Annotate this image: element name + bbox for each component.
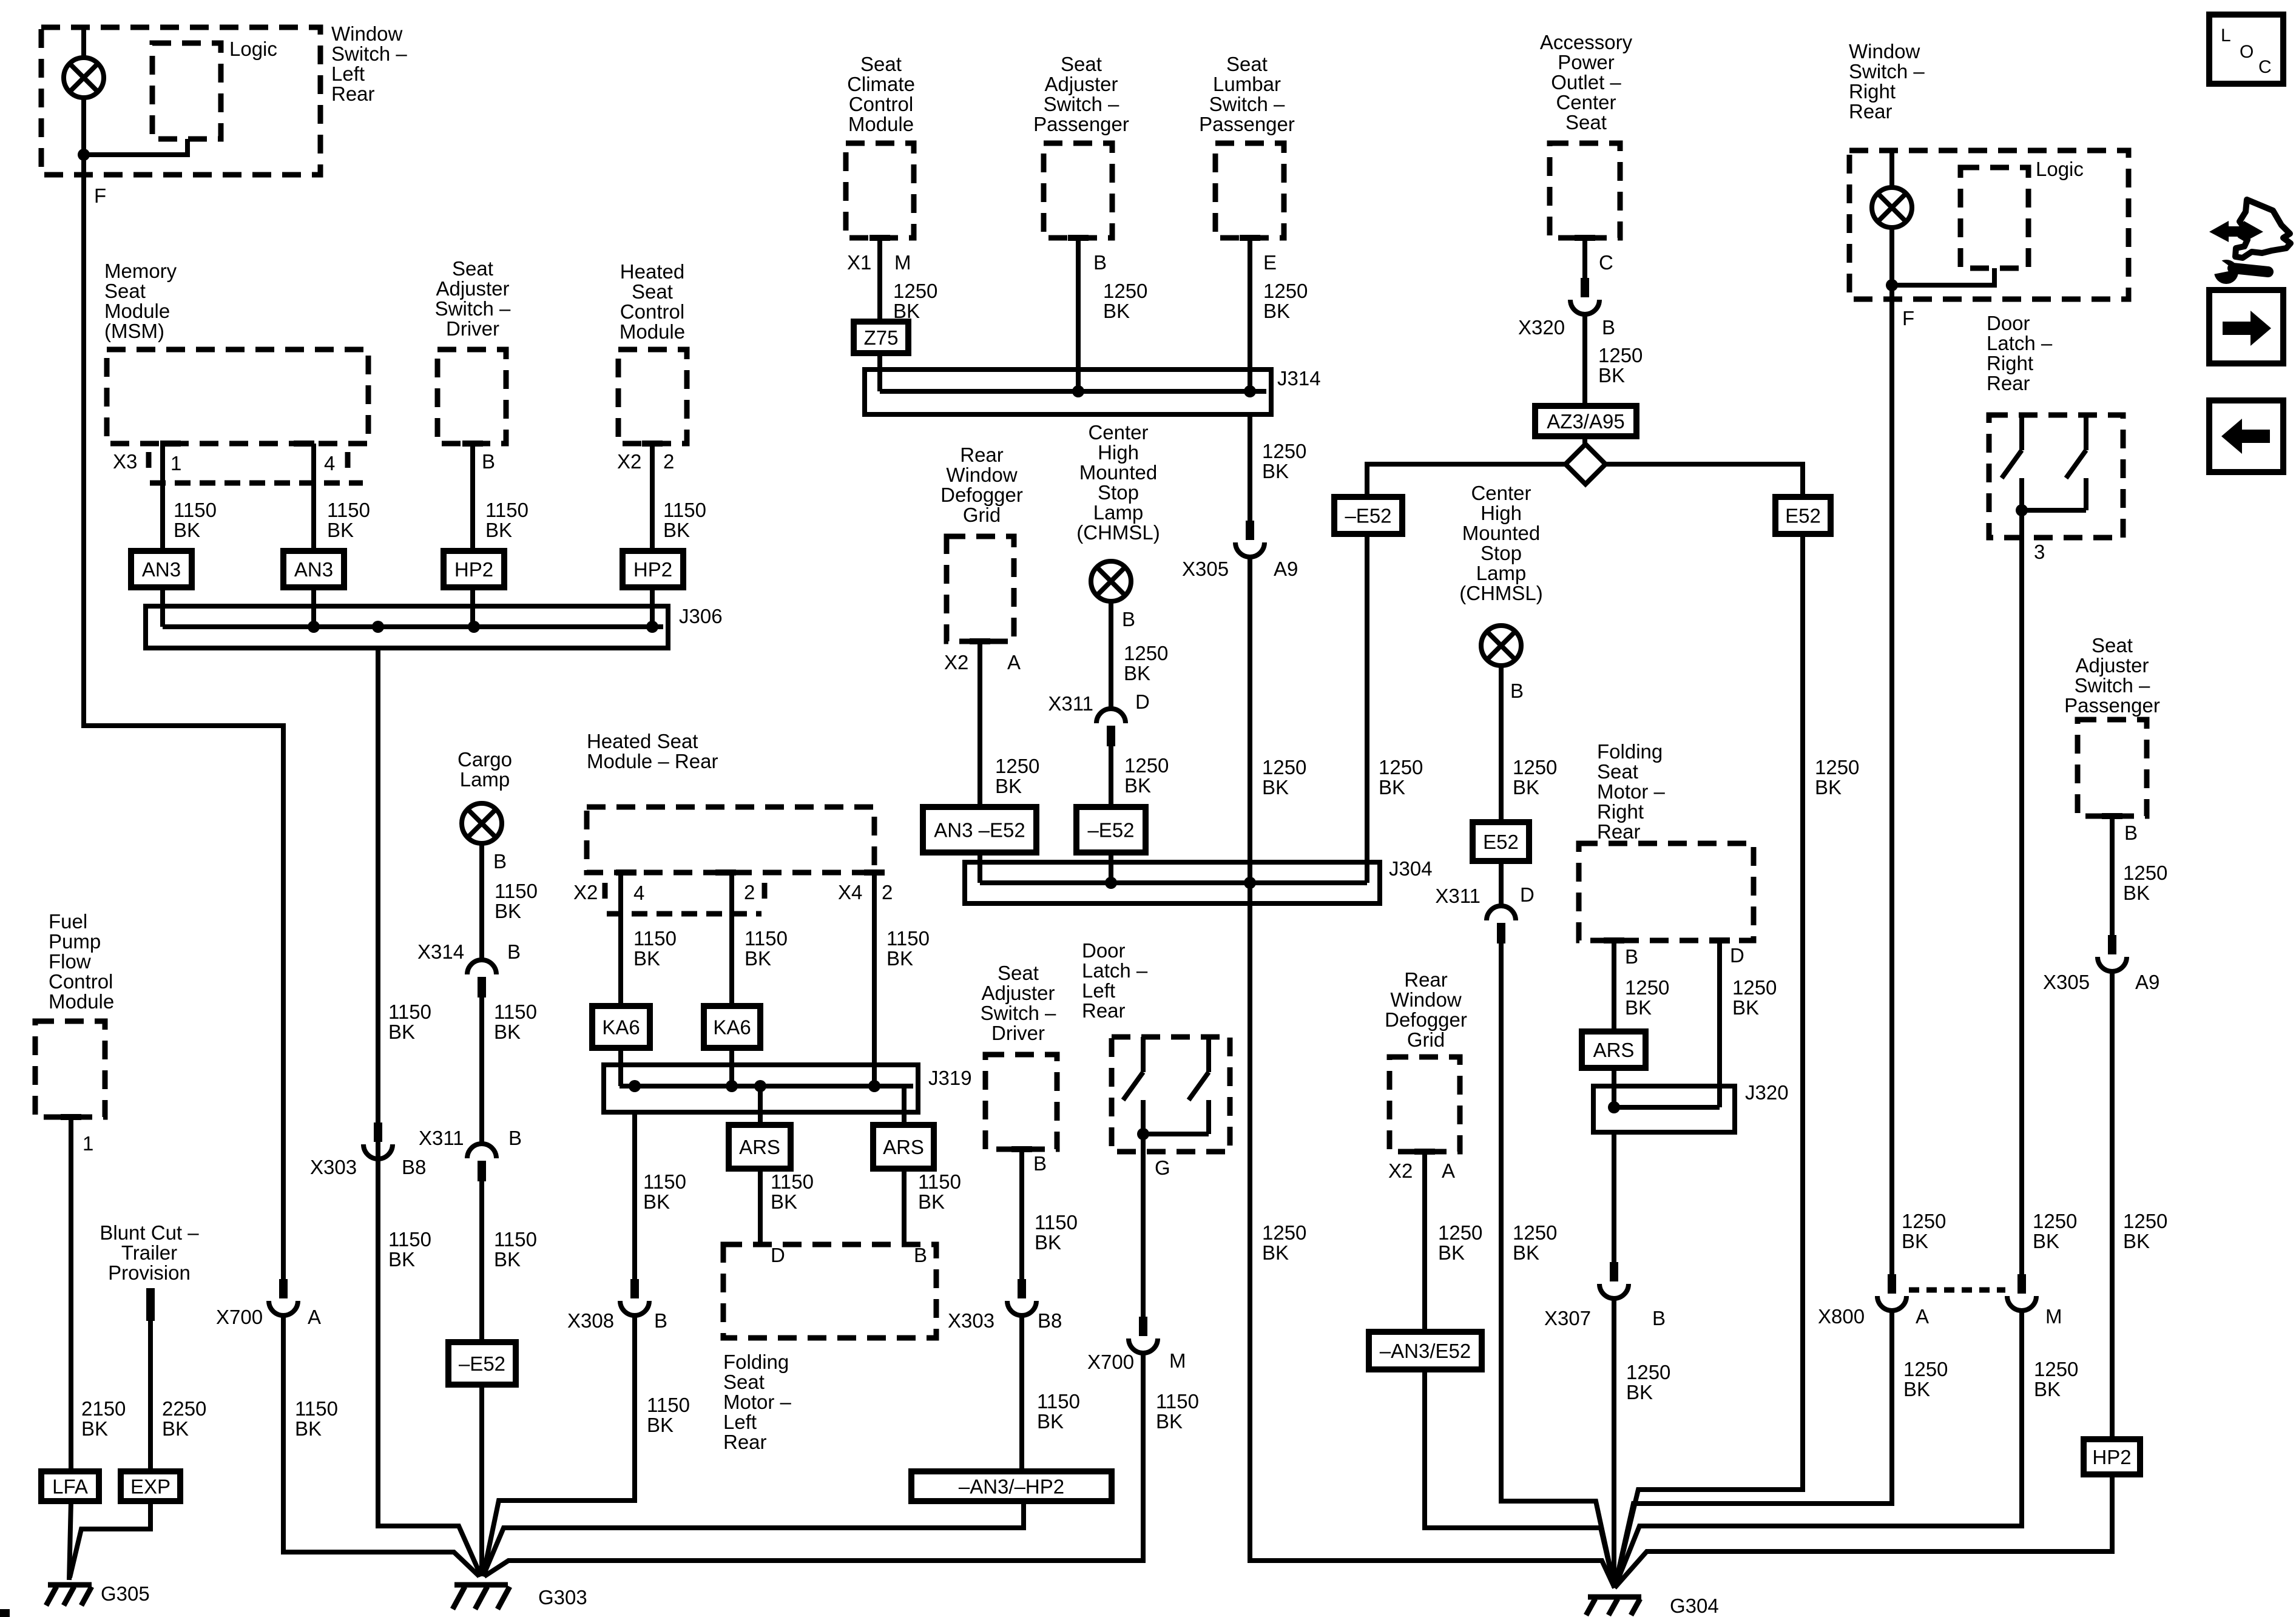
wire: seat climate M to Z75, 1250 BK [877, 238, 882, 322]
wire: LFA down to ground G305 [69, 1501, 71, 1580]
wire: J306 ground leg 1150 BK down to G303 [378, 648, 481, 1576]
component box: Accessory Power Outlet (dashed) [1550, 143, 1620, 238]
wire: E52 down then left to ground G304, 1250 BK [1615, 534, 1803, 1588]
wire: -AN3/-HP2 down/left to ground G303 [483, 1501, 1024, 1576]
pin stub, MSM pin 4 [294, 441, 314, 447]
wire: Z75 into J314 [877, 353, 882, 391]
connector X314 pin B (inline) [467, 960, 496, 998]
inline code box ARS (right) [873, 1125, 934, 1169]
CHMSL lamp (left) [1091, 561, 1131, 601]
wire: MSM pin 4 to AN3, 1150 BK [311, 444, 316, 551]
svg-text:EXP: EXP [130, 1476, 171, 1498]
pin stub B (adjuster passenger right) [2102, 813, 2122, 819]
svg-text:ARS: ARS [883, 1136, 924, 1158]
junction dot on J319 (KA6 right) [726, 1080, 738, 1092]
svg-text:X311: X311 [419, 1127, 464, 1149]
switch contacts inside door latch left rear [1123, 1037, 1209, 1134]
component box: Heated Seat Module - Rear (dashed) [587, 807, 874, 873]
connector X800 pin M (inline, door latch right) [2007, 1274, 2036, 1311]
wire: -E52 down to ground G303 [479, 1385, 484, 1576]
pin stub X2-2 (heated seat control) [642, 441, 663, 447]
wire: X307 straight down to ground G304, 1250 BK [1612, 1297, 1616, 1588]
component box: Folding Seat Motor - Right Rear (dashed) [1579, 843, 1754, 940]
svg-text:AZ3/A95: AZ3/A95 [1547, 410, 1624, 433]
junction dot on J319 (X4) [868, 1080, 880, 1092]
svg-text:1: 1 [171, 452, 181, 474]
svg-text:G: G [1155, 1156, 1170, 1179]
wire: door latch right pin 3 down to X800 M [2019, 510, 2024, 1274]
svg-text:X3: X3 [113, 450, 137, 473]
svg-text:X311: X311 [1435, 885, 1481, 907]
svg-text:4: 4 [633, 882, 644, 904]
wire: KA6 left into J319 [618, 1048, 623, 1086]
component box: Rear Window Defogger Grid (dashed, left) [947, 536, 1014, 641]
wire: X4 pin 2 to J319, 1150 BK [872, 873, 877, 1086]
svg-text:B: B [493, 850, 507, 873]
component box: Seat Adjuster Switch - Driver (dashed, bottom) [985, 1055, 1057, 1149]
svg-text:HP2: HP2 [454, 558, 493, 581]
svg-text:Z75: Z75 [864, 326, 899, 349]
inline code box HP2 (driver) [444, 551, 504, 587]
wire: EXP down/left to ground G305 [70, 1501, 150, 1578]
wire: X314 to X311 1150 BK [479, 998, 484, 1144]
wire: lumbar 1250 BK from X305 through J304 to ground G304 [1250, 556, 1615, 1588]
arrow icon box (right arrow) [2209, 290, 2283, 363]
splice J306 (bus) [146, 606, 668, 648]
wire: pin 2 to KA6 right, 1150 BK [729, 873, 734, 1006]
logic block (dashed) in right window switch [1960, 167, 2028, 268]
pin stub B (folding right motor) [1604, 937, 1624, 944]
svg-text:X700: X700 [1087, 1351, 1134, 1373]
svg-text:F: F [94, 184, 106, 207]
pin stub B (seat adjuster driver) [462, 441, 483, 447]
svg-text:LFA: LFA [52, 1476, 88, 1498]
svg-text:M: M [2045, 1305, 2062, 1328]
pin stub C (accessory outlet) [1575, 235, 1595, 241]
junction dot on J306 (driver HP2) [468, 621, 480, 633]
ground symbol G305 [46, 1585, 92, 1605]
inline code box LFA [41, 1471, 99, 1501]
inline code box AZ3/A95 [1535, 406, 1636, 436]
svg-text:O: O [2240, 42, 2254, 62]
wire: logic stub (right) [1892, 268, 1994, 285]
wire: X305 to HP2, 1250 BK [2110, 970, 2115, 1439]
svg-text:B: B [654, 1309, 667, 1332]
inline code box -AN3/-HP2 [911, 1471, 1112, 1501]
inline code box AN3 -E52 [923, 807, 1036, 852]
connector X303 pin B8 (inline, on J306 ground leg) [363, 1122, 393, 1159]
inline code box -AN3/E52 [1369, 1332, 1482, 1369]
connector X700 pin A (inline, window switch left) [269, 1279, 298, 1315]
LOC legend box (top right) [2209, 15, 2283, 84]
svg-text:M: M [894, 251, 911, 274]
svg-text:AN3: AN3 [142, 558, 181, 581]
connector X3 face (dashed row) under MSM [150, 481, 363, 486]
component box: Folding Seat Motor - Left Rear (dashed) [723, 1244, 936, 1338]
wire: accessory outlet C to X320 [1582, 238, 1587, 278]
inline code box HP2 (adjuster passenger) [2084, 1439, 2140, 1474]
wire: X320 to AZ3/A95, 1250 BK [1582, 313, 1587, 406]
svg-text:A: A [308, 1306, 321, 1328]
svg-text:B8: B8 [402, 1156, 426, 1178]
wire: -E52 into J304 [1109, 852, 1113, 883]
component box: Window Switch - Left Rear (dashed) [41, 27, 320, 175]
switch contacts inside door latch right rear [2002, 415, 2086, 510]
connector X308 pin B (inline) [620, 1279, 649, 1315]
wire: AN3 -E52 into J304 [977, 852, 982, 883]
pin stub X2-A (defogger right) [1414, 1149, 1435, 1155]
wire: pin 4 to KA6 left, 1150 BK [618, 873, 623, 1006]
svg-text:B: B [1122, 608, 1135, 630]
svg-text:J320: J320 [1745, 1081, 1789, 1104]
svg-text:B: B [1625, 945, 1638, 968]
inline code box KA6 (left) [592, 1006, 650, 1048]
svg-text:F: F [1902, 307, 1914, 329]
component box: Window Switch - Right Rear (dashed) [1849, 150, 2129, 299]
inline code box ARS (left) [729, 1125, 791, 1169]
wire: lamp to node F (right) [1889, 228, 1894, 299]
svg-text:D: D [771, 1244, 785, 1266]
svg-text:B: B [2124, 822, 2138, 844]
junction dot on J306 (ground leg) [372, 621, 384, 633]
svg-text:A9: A9 [2135, 971, 2159, 993]
component box: Door Latch - Right Rear (dashed) [1989, 415, 2123, 538]
svg-text:2: 2 [744, 881, 755, 903]
svg-text:HeatedSeatControlModule: HeatedSeatControlModule [620, 260, 685, 343]
svg-text:B: B [914, 1244, 927, 1266]
inline code box -E52 (left branch) [1334, 497, 1402, 534]
svg-text:KA6: KA6 [602, 1016, 640, 1039]
svg-text:X303: X303 [310, 1156, 357, 1178]
svg-text:ARS: ARS [739, 1136, 780, 1158]
wire: HP2 into J306 right [650, 587, 655, 627]
service/diagnostic icon (hand with wrench and arrows) [2209, 200, 2291, 284]
inline code box AN3 (right) [283, 551, 344, 587]
inline code box HP2 (heated seat) [623, 551, 683, 587]
svg-text:–AN3/–HP2: –AN3/–HP2 [959, 1476, 1064, 1498]
wire: X311 down to -E52 box 1150 BK [479, 1181, 484, 1342]
wire: AN3 right into J306 [311, 587, 316, 627]
wire: circuit 1150 BK from window switch F down, across and down to X700 [84, 175, 283, 1279]
svg-text:–E52: –E52 [459, 1352, 505, 1375]
inline code box Z75 [854, 322, 908, 353]
wire: HP2 to ground G304, 1250 BK [1615, 1474, 2112, 1588]
pin stub B (adjuster passenger top) [1068, 235, 1089, 241]
svg-text:J304: J304 [1389, 857, 1433, 880]
cargo lamp [462, 803, 502, 843]
connector X320 pin B (inline) [1570, 278, 1599, 314]
svg-text:J314: J314 [1277, 367, 1321, 390]
inline code box -E52 (CHMSL left) [1076, 807, 1146, 852]
svg-text:CenterHighMountedStopLamp(CHMS: CenterHighMountedStopLamp(CHMSL) [1076, 421, 1160, 544]
svg-text:X1: X1 [847, 251, 871, 274]
wire: AZ3/A95 to splice diamond [1582, 436, 1587, 444]
component box: Memory Seat Module (dashed) [107, 349, 368, 444]
splice J319 (bus) [604, 1065, 918, 1112]
svg-text:X308: X308 [567, 1309, 614, 1332]
wire: defogger right A, 1250 BK [1422, 1152, 1427, 1332]
wire: -E52 right branch end into J304 [1365, 862, 1369, 883]
pin stub 4 (heated seat module) [616, 869, 636, 876]
wire: heated seat control 2 to HP2, 1150 BK [650, 444, 655, 551]
wire: lumbar E to J314, 1250 BK [1248, 238, 1252, 391]
junction dot on J319 (X308 leg) [629, 1080, 641, 1092]
wire: ARS right to folding seat motor B, 1150 BK [902, 1169, 907, 1244]
junction dot at logic tap (right) [1886, 279, 1898, 291]
svg-text:A: A [1916, 1305, 1929, 1328]
wire: door latch G down through X700 M to ground G303, 1150 BK [1141, 1134, 1146, 1317]
svg-text:KA6: KA6 [713, 1016, 751, 1039]
svg-text:X305: X305 [2043, 971, 2090, 993]
connector X305 pin A9 (inline, adjuster passenger) [2098, 935, 2127, 971]
wire: X800 M to ground G304, 1250 BK [1615, 1309, 2022, 1588]
connector X305 pin A9 (inline, lumbar) [1235, 521, 1264, 557]
wire: CHMSL B 1250 BK [1109, 601, 1113, 709]
wire: E52 to X311 [1499, 861, 1504, 906]
wire: seat adjuster driver B to HP2, 1150 BK [470, 444, 475, 551]
svg-text:HP2: HP2 [2092, 1446, 2131, 1468]
wire: blunt cut to EXP, 2250 BK [148, 1321, 153, 1471]
splice J304 (bus) [965, 862, 1380, 903]
junction dot on J306 (heated seat HP2) [646, 621, 658, 633]
pin stub B (adjuster driver bottom) [1011, 1146, 1032, 1152]
svg-text:X311: X311 [1048, 692, 1093, 715]
wire: adjuster passenger B to J314, 1250 BK [1076, 238, 1081, 391]
svg-text:J319: J319 [928, 1067, 972, 1089]
wire: adjuster driver B, 1150 BK [1019, 1149, 1024, 1279]
connector X800 pin A (inline, window switch right) [1877, 1274, 1906, 1311]
pin stub, MSM pin 1 [160, 441, 181, 447]
svg-text:B8: B8 [1038, 1309, 1062, 1332]
wire: J320 leg down to X307, 1250 BK [1612, 1132, 1616, 1262]
arrow icon box (left arrow) [2209, 400, 2283, 472]
CHMSL lamp (right) [1481, 626, 1521, 666]
pin stub D (folding right motor) [1709, 937, 1730, 944]
wire: X700 A to ground G303, 1150 BK [283, 1314, 479, 1576]
connector X700 pin M (inline, door latch left) [1129, 1317, 1158, 1353]
component box: Rear Window Defogger Grid (dashed, right) [1389, 1057, 1460, 1152]
junction dot on J306 (pin4 wire) [308, 621, 320, 633]
svg-text:B: B [508, 1127, 522, 1149]
svg-text:X307: X307 [1544, 1307, 1591, 1329]
svg-text:G303: G303 [538, 1586, 587, 1609]
svg-text:Logic: Logic [2036, 158, 2084, 180]
inline code box E52 (right branch) [1775, 497, 1831, 534]
svg-text:X700: X700 [216, 1306, 263, 1328]
splice J314 (bus) [865, 370, 1271, 414]
inline code box ARS (folding right) [1582, 1031, 1646, 1068]
svg-text:AN3 –E52: AN3 –E52 [934, 819, 1025, 842]
junction dot on J319 (ARS left leg) [754, 1080, 766, 1092]
wire: CHMSL right B to E52, 1250 BK [1499, 666, 1504, 822]
wire: lamp to node F [81, 98, 86, 175]
inline code box EXP [121, 1471, 180, 1501]
wire: J319 to ARS right [902, 1086, 907, 1125]
wire: diamond left branch to -E52 [1367, 464, 1565, 497]
connector X307 pin B (inline) [1599, 1262, 1629, 1298]
svg-text:Logic: Logic [229, 38, 277, 60]
svg-text:G304: G304 [1670, 1595, 1719, 1617]
pin stub E (lumbar) [1240, 235, 1260, 241]
svg-text:E52: E52 [1483, 831, 1519, 853]
wire: folding right D to J320, 1250 BK [1717, 940, 1722, 1107]
indicator lamp (Window Switch - Left Rear) [64, 58, 104, 98]
wire: X311 down to ground G304, 1250 BK [1501, 941, 1615, 1588]
ground symbol G303 [453, 1585, 510, 1609]
svg-text:B: B [1652, 1307, 1666, 1329]
svg-text:A9: A9 [1274, 558, 1298, 580]
logic block (dashed) in left window switch [152, 43, 221, 139]
component box: Fuel Pump Flow Control Module (dashed) [35, 1021, 105, 1117]
svg-text:ARS: ARS [1593, 1039, 1635, 1061]
svg-text:CargoLamp: CargoLamp [458, 748, 512, 791]
svg-text:HP2: HP2 [633, 558, 672, 581]
wire: J319 leg down to X308, 1150 BK [632, 1112, 637, 1279]
junction dot on J304 (CHMSL) [1105, 877, 1117, 889]
svg-text:A: A [1007, 651, 1021, 673]
wire: HP2 into J306 [470, 587, 475, 627]
blunt cut terminal (stub) [146, 1288, 155, 1321]
svg-text:D: D [1135, 690, 1150, 713]
svg-text:X2: X2 [944, 651, 968, 673]
pin stub X1-M (seat climate) [869, 235, 890, 241]
wire: KA6 right into J319 [729, 1048, 734, 1086]
component box: Seat Adjuster Switch - Passenger (dashed, right) [2078, 720, 2147, 816]
svg-text:X2: X2 [1388, 1160, 1413, 1182]
svg-text:X2: X2 [573, 881, 598, 903]
wire: AN3 left into J306 [160, 587, 165, 627]
svg-text:2: 2 [663, 450, 674, 473]
wire: -E52 down to J304 right end, 1250 BK [1365, 534, 1369, 883]
connector X311 pin D (inline, CHMSL left) [1096, 709, 1126, 746]
wire: J319 to ARS left [758, 1086, 763, 1125]
wire: ARS left to folding seat motor D, 1150 BK [758, 1169, 763, 1244]
svg-text:–AN3/E52: –AN3/E52 [1380, 1340, 1471, 1362]
wire: ARS into J320 [1612, 1068, 1616, 1107]
wire: MSM pin 1 to AN3, 1150 BK [160, 444, 165, 551]
connector X311 pin B (inline, cargo) [467, 1144, 496, 1181]
wire: defogger A to AN3 -E52 box, 1250 BK [977, 641, 982, 807]
svg-text:J306: J306 [679, 605, 723, 627]
inline code box AN3 (left) [131, 551, 192, 587]
wire: diamond right branch to E52 [1606, 464, 1803, 497]
svg-text:3: 3 [2034, 541, 2045, 563]
svg-text:–E52: –E52 [1345, 505, 1391, 527]
wire: X311 to -E52 box 1250 BK [1109, 746, 1113, 807]
svg-text:X320: X320 [1518, 316, 1565, 339]
svg-text:B: B [1093, 251, 1107, 274]
svg-text:D: D [1520, 883, 1535, 906]
svg-text:D: D [1730, 944, 1744, 967]
junction dot on J304 (lumbar) [1244, 877, 1256, 889]
component box: Door Latch - Left Rear (dashed) [1112, 1037, 1230, 1152]
junction dot at logic tap [78, 149, 90, 161]
svg-text:C: C [1599, 251, 1613, 274]
inline code box -E52 (cargo) [448, 1342, 516, 1385]
svg-text:1: 1 [83, 1132, 93, 1155]
wire: lamp feed inside window switch left [81, 27, 86, 58]
svg-text:B: B [1033, 1152, 1047, 1175]
connector X2 face (dashed row) under heated seat module [607, 911, 761, 917]
svg-text:2: 2 [882, 881, 893, 903]
inline code box E52 (CHMSL right) [1473, 822, 1529, 861]
junction dot inside door latch right [2016, 504, 2028, 516]
component box: Seat Lumbar Switch - Passenger (dashed) [1215, 143, 1284, 238]
svg-text:G305: G305 [101, 1582, 150, 1605]
junction dot on J320 [1608, 1101, 1620, 1113]
splice diamond (ground distribution node) [1565, 444, 1606, 484]
wire: lumbar 1250 BK from J314 down to X305 [1248, 414, 1252, 521]
svg-text:A: A [1442, 1160, 1455, 1182]
wire: cargo lamp B 1150 BK [479, 843, 484, 960]
splice J320 (bus) [1593, 1086, 1735, 1132]
svg-text:C: C [2258, 57, 2272, 77]
wire: X303 to -AN3/-HP2 box, 1150 BK [1019, 1314, 1024, 1471]
svg-text:CenterHighMountedStopLamp(CHMS: CenterHighMountedStopLamp(CHMSL) [1459, 482, 1543, 604]
wire: X700 M to G303, 1150 BK [484, 1352, 1143, 1576]
pin stub X2-A (defogger left) [970, 638, 990, 644]
junction dot on J314 (adjuster passenger) [1072, 385, 1084, 397]
connector X303 pin B8 (inline, adjuster driver) [1007, 1279, 1036, 1315]
svg-text:B: B [482, 450, 495, 473]
component box: Seat Adjuster Switch - Driver (dashed) [437, 349, 506, 444]
svg-text:X303: X303 [948, 1309, 994, 1332]
wire: -AN3/E52 to ground G304 [1425, 1369, 1615, 1588]
indicator lamp (Window Switch - Right Rear) [1872, 187, 1912, 228]
connector X311 pin D (inline, CHMSL right) [1487, 906, 1516, 944]
svg-text:B: B [1602, 316, 1615, 339]
svg-text:E: E [1263, 251, 1277, 274]
component box: Heated Seat Control Module (dashed) [618, 349, 687, 444]
wire: lamp feed inside window switch right [1889, 150, 1894, 187]
svg-text:X314: X314 [417, 940, 464, 963]
component box: Seat Adjuster Switch - Passenger (dashed) [1044, 143, 1112, 238]
dashed link between X800 pins A and M [1909, 1288, 2005, 1293]
junction dot on J314 (lumbar) [1244, 385, 1256, 397]
svg-text:M: M [1169, 1349, 1186, 1372]
wire: folding right B to ARS, 1250 BK [1612, 940, 1616, 1031]
svg-text:X305: X305 [1182, 558, 1229, 580]
component box: Seat Climate Control Module (dashed) [846, 143, 914, 238]
wire: adjuster passenger right B, 1250 BK [2110, 816, 2115, 935]
wire: X308 to ground G303, 1150 BK [483, 1314, 635, 1576]
pin stub X4-2 [864, 869, 885, 876]
scan mark, bottom-left corner [0, 1609, 10, 1617]
svg-text:–E52: –E52 [1087, 819, 1134, 842]
svg-text:X800: X800 [1818, 1305, 1865, 1328]
wire: logic stub to lamp wire [84, 139, 187, 155]
svg-text:E52: E52 [1785, 505, 1821, 527]
inline code box KA6 (right) [704, 1006, 760, 1048]
junction dot inside door latch left [1137, 1128, 1149, 1140]
wire: fuel pump 1 to LFA, 2150 BK [69, 1117, 73, 1471]
svg-text:AN3: AN3 [294, 558, 333, 581]
svg-text:X2: X2 [617, 450, 641, 473]
pin stub 2 (heated seat module) [715, 869, 736, 876]
ground symbol G304 [1586, 1597, 1641, 1615]
svg-text:B: B [1510, 680, 1524, 702]
svg-text:L: L [2221, 25, 2231, 46]
svg-text:B: B [507, 940, 521, 963]
wire: window switch right F down to X800 A, 1250 BK [1889, 299, 1894, 1274]
pin stub 1 (fuel pump module) [61, 1114, 81, 1120]
svg-text:X4: X4 [838, 881, 862, 903]
wire: X800 A to ground G304, 1250 BK [1615, 1309, 1892, 1588]
svg-text:4: 4 [324, 452, 335, 474]
